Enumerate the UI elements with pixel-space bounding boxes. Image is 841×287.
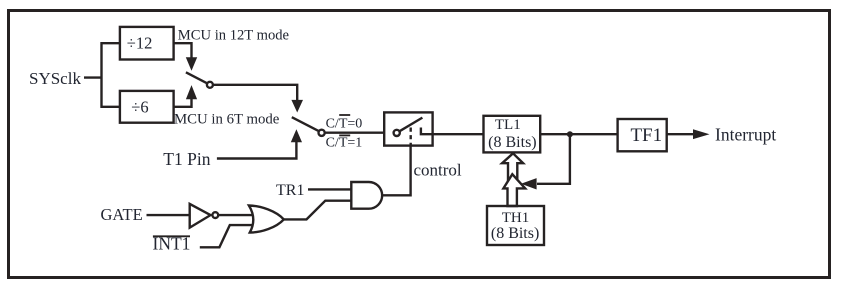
wire AND output up to control	[382, 146, 411, 196]
svg-text:(8 Bits): (8 Bits)	[491, 225, 539, 242]
register TH1 box	[487, 206, 544, 245]
control switch actuator (dashed)	[410, 128, 412, 147]
NOT gate triangle	[190, 204, 211, 228]
svg-text:÷12: ÷12	[127, 34, 153, 53]
junction node	[567, 131, 573, 137]
C/T select switch lever	[292, 117, 319, 131]
svg-text:TF1: TF1	[630, 125, 662, 146]
arrowhead 12T mode (down)	[186, 57, 197, 71]
mode select switch pivot	[207, 82, 213, 88]
svg-text:(8 Bits): (8 Bits)	[488, 134, 536, 151]
wire branch to divider /6	[101, 106, 121, 108]
svg-text:SYSclk: SYSclk	[29, 69, 81, 88]
register TF1 box	[618, 119, 667, 151]
wire OR gate to AND gate	[284, 201, 352, 220]
wire GATE to NOT gate	[147, 214, 190, 216]
hollow arrow from TH1 (lower)	[503, 174, 525, 206]
C/T select switch pivot	[319, 130, 325, 136]
wire /6 output to mode switch	[174, 98, 192, 107]
svg-text:control: control	[414, 161, 462, 180]
wire TL1 to TF1	[540, 133, 617, 135]
wire T1 Pin to C/T switch	[217, 141, 297, 159]
arrowhead interrupt	[693, 129, 710, 139]
svg-text:MCU in 12T mode: MCU in 12T mode	[178, 27, 289, 43]
svg-text:C/T=1: C/T=1	[326, 135, 363, 150]
wire NOT gate to OR gate	[218, 214, 253, 216]
wire C/T switch to control box	[325, 131, 385, 133]
overline over T of C/T=1	[339, 134, 350, 136]
divider box /6	[120, 91, 174, 123]
wire /12 output to mode switch	[174, 43, 192, 58]
wire SYSclk to branch node	[84, 76, 102, 78]
svg-text:T1 Pin: T1 Pin	[163, 149, 210, 169]
wire branch vertical	[100, 42, 102, 108]
overline over INT1	[153, 235, 190, 237]
divider box /12	[120, 27, 174, 60]
arrowhead T1 pin (up)	[291, 129, 302, 142]
hollow arrow TL1 reload (upper)	[502, 153, 523, 180]
arrowhead carry into TH1 arrow (left)	[521, 178, 537, 189]
mode select switch lever	[186, 72, 208, 83]
wire mode switch to C/T switch	[213, 85, 297, 101]
control switch contact	[421, 128, 433, 135]
arrowhead clock into C/T switch (down)	[291, 100, 303, 113]
svg-text:GATE: GATE	[101, 205, 143, 224]
svg-text:Interrupt: Interrupt	[715, 124, 776, 144]
wire INT1 to OR gate	[200, 225, 253, 247]
wire branch to divider /12	[101, 42, 121, 44]
svg-text:MCU in 6T mode: MCU in 6T mode	[174, 112, 280, 128]
overline over T of C/T=0	[339, 114, 350, 116]
register TL1 box	[484, 116, 541, 153]
svg-text:TH1: TH1	[502, 210, 530, 226]
svg-text:TL1: TL1	[495, 117, 521, 133]
wire control box to TL1	[433, 133, 484, 135]
wire TF1 to interrupt arrow	[667, 133, 694, 135]
control box	[384, 112, 432, 145]
AND gate	[351, 182, 382, 209]
control switch lever	[399, 118, 422, 132]
wire junction down to carry arrowhead	[537, 134, 570, 184]
svg-text:C/T=0: C/T=0	[326, 117, 363, 132]
svg-text:÷6: ÷6	[131, 97, 148, 116]
OR gate	[249, 206, 284, 233]
control switch pivot	[394, 130, 400, 136]
NOT gate bubble	[212, 212, 218, 218]
svg-text:TR1: TR1	[276, 182, 304, 199]
arrowhead 6T mode (up)	[186, 85, 197, 99]
wire TR1 to AND gate	[308, 188, 351, 190]
